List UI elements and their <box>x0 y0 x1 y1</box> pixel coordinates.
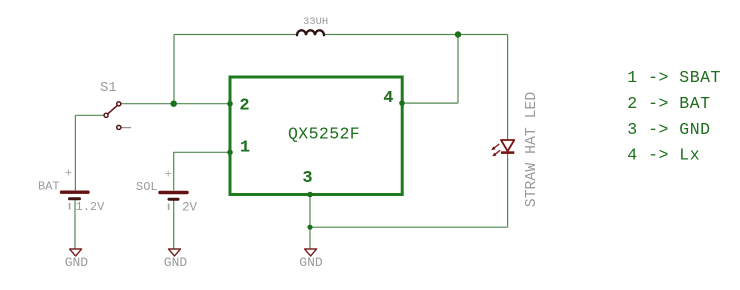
LED label STRAW HAT LED <box>524 92 540 208</box>
wire down to BAT <box>74 115 76 190</box>
ground symbol under BAT <box>70 249 82 256</box>
wire down to LED anode <box>507 35 509 140</box>
battery BAT plus sign <box>65 167 72 181</box>
solar cell SOL bottom plate <box>169 198 178 201</box>
wire SOL to GND <box>173 201 175 250</box>
LED D1 cathode bar <box>501 151 514 154</box>
pin 1 <box>240 139 250 158</box>
wire bottom horizontal <box>310 226 508 228</box>
legend line 3 GND <box>627 120 710 139</box>
solar cell SOL pin tick <box>168 204 170 211</box>
svg-text:1.2V: 1.2V <box>76 200 106 214</box>
junction pin 2 <box>227 101 233 107</box>
svg-text:2: 2 <box>239 97 249 116</box>
legend line 2 BAT <box>627 94 710 113</box>
switch S1 common contact <box>104 113 108 117</box>
ground label under pin 3 <box>299 255 323 270</box>
battery BAT value 1.2V <box>76 200 106 214</box>
wire LED cathode down <box>507 153 509 227</box>
svg-text:3 -> GND: 3 -> GND <box>627 120 710 139</box>
LED D1 arrow 1 <box>491 144 499 150</box>
svg-text:2V: 2V <box>182 201 198 215</box>
battery BAT label <box>38 179 60 193</box>
pin 3 <box>302 169 312 188</box>
ic label QX5252F <box>288 125 360 144</box>
pin 4 <box>383 89 393 108</box>
svg-text:2 -> BAT: 2 -> BAT <box>627 94 710 113</box>
wire switch to pin 2 <box>121 103 230 105</box>
battery BAT pin tick <box>69 203 71 210</box>
wire BAT to GND <box>74 200 76 249</box>
junction pin 3 <box>307 192 313 198</box>
wire left vertical to junction A <box>173 35 175 104</box>
svg-text:GND: GND <box>299 255 323 270</box>
wire junction B vertical <box>457 35 459 104</box>
svg-text:+: + <box>65 167 72 181</box>
svg-text:1 -> SBAT: 1 -> SBAT <box>627 68 721 87</box>
wire switch common stub <box>75 114 104 116</box>
svg-text:QX5252F: QX5252F <box>288 125 360 144</box>
legend line 1 SBAT <box>627 68 721 87</box>
switch S1 lever <box>108 105 118 114</box>
junction pin 1 <box>227 150 233 156</box>
junction A <box>171 101 177 107</box>
LED D1 triangle <box>501 140 514 151</box>
svg-text:BAT: BAT <box>38 179 60 193</box>
wire pin 3 to GND <box>309 195 311 250</box>
switch S1 bottom contact <box>117 125 121 129</box>
svg-text:4: 4 <box>383 89 393 108</box>
junction pin 4 <box>399 100 405 106</box>
svg-text:1: 1 <box>240 139 250 158</box>
ground label under SOL <box>164 255 188 270</box>
svg-text:GND: GND <box>164 255 188 270</box>
wire top right horizontal <box>324 34 508 36</box>
solar cell SOL label <box>136 180 158 194</box>
LED D1 arrow 2 <box>492 150 500 156</box>
svg-text:33UH: 33UH <box>303 16 328 28</box>
battery BAT top plate <box>62 190 89 193</box>
junction B <box>455 31 461 37</box>
ground label under BAT <box>65 255 89 270</box>
wire pin 4 to junction B <box>402 102 458 104</box>
svg-text:S1: S1 <box>100 80 117 96</box>
svg-text:+: + <box>165 168 172 182</box>
svg-text:3: 3 <box>302 169 312 188</box>
wire SOL to pin 1 <box>174 152 230 190</box>
inductor value 33UH <box>303 16 328 28</box>
switch S1 label <box>100 80 117 96</box>
svg-text:GND: GND <box>65 255 89 270</box>
switch S1 bottom stub <box>122 127 132 129</box>
op-amp U1 ic body QX5252F <box>230 77 402 195</box>
ground symbol under SOL <box>169 249 181 256</box>
svg-text:4 -> Lx: 4 -> Lx <box>627 146 700 165</box>
battery BAT bottom plate <box>70 197 80 200</box>
legend line 4 Lx <box>627 146 700 165</box>
svg-text:STRAW HAT LED: STRAW HAT LED <box>524 92 540 208</box>
wire top left horizontal <box>174 34 297 36</box>
solar cell SOL top plate <box>160 191 187 194</box>
inductor L1 coil <box>297 30 324 35</box>
junction node C <box>307 225 312 230</box>
solar cell SOL value 2V <box>182 201 198 215</box>
switch S1 top contact <box>117 102 121 106</box>
svg-text:SOL: SOL <box>136 180 158 194</box>
ground symbol under pin 3 <box>305 249 317 256</box>
solar cell SOL plus sign <box>165 168 172 182</box>
pin 2 <box>239 97 249 116</box>
